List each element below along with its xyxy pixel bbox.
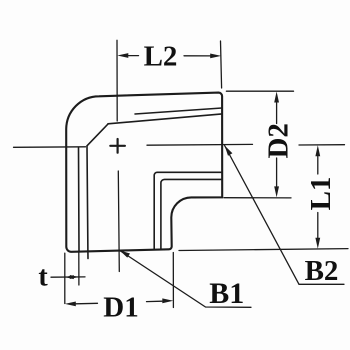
centerline horizontal left: [14, 146, 86, 149]
svg-text:L2: L2: [144, 41, 178, 73]
svg-text:B1: B1: [209, 277, 244, 310]
elbow body outer outline: [66, 93, 222, 252]
svg-text:D1: D1: [103, 291, 138, 323]
bottom extension line (left leg bottom extended right): [179, 249, 348, 251]
center cross: [110, 139, 125, 153]
L2 dimension: [221, 41, 222, 88]
D1 dimension: [64, 253, 66, 303]
svg-text:L1: L1: [305, 177, 337, 211]
inner corner chamfer: [87, 124, 108, 146]
left leg inner bore line 2: [87, 146, 88, 258]
centerline vertical top / L2 left extension: [116, 40, 118, 121]
D2 dimension: [226, 90, 293, 92]
svg-text:D2: D2: [263, 123, 295, 158]
right leg lower bore corner line 2: [161, 179, 222, 249]
B2 leader: [225, 146, 344, 285]
centerline vertical bottom: [118, 171, 119, 272]
svg-text:t: t: [38, 262, 48, 293]
svg-text:B2: B2: [305, 255, 339, 287]
B1 leader: [120, 250, 252, 307]
right leg upper bore line 2: [135, 108, 222, 114]
centerline horizontal right: [147, 143, 253, 146]
right leg upper bore line (from chamfer): [108, 114, 222, 124]
left leg inner bore line 1: [78, 148, 81, 252]
right leg lower bore corner line 1: [154, 172, 222, 249]
t dimension: [78, 252, 80, 285]
L1 dimension: [299, 144, 345, 146]
